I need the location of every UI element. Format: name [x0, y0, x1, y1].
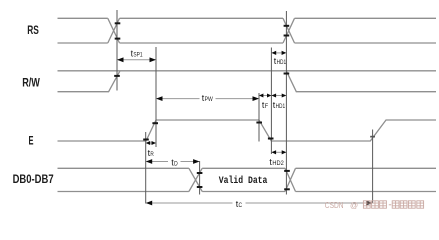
measure tSP1 arrow: [117, 57, 156, 62]
svg-text:HD2: HD2: [272, 160, 284, 167]
node reference line T1: [145, 132, 147, 204]
svg-text:E: E: [29, 133, 34, 147]
svg-text:R: R: [150, 151, 154, 158]
junction tick DB X2 upper: [284, 170, 290, 172]
junction tick E rise foot: [143, 139, 149, 141]
junction tick E rise2: [370, 136, 375, 138]
node reference line L1: [116, 10, 118, 91]
node reference line T2: [199, 161, 201, 195]
svg-text:C: C: [239, 202, 243, 209]
svg-text:CSDN: CSDN: [325, 201, 344, 210]
svg-text:Valid Data: Valid Data: [219, 175, 268, 186]
svg-text:R/W: R/W: [22, 76, 40, 90]
svg-text:HD1: HD1: [277, 59, 287, 66]
node reference line L3: [258, 93, 260, 142]
node reference line L6: [372, 130, 374, 204]
junction tick E fall foot: [268, 138, 274, 140]
junction tick RS X2 lower: [284, 35, 290, 37]
junction tick DB X2 lower: [284, 188, 290, 190]
svg-text:SP1: SP1: [133, 52, 142, 59]
measure tHD1 lower arrow: [271, 94, 286, 98]
svg-text:@: @: [350, 201, 358, 210]
junction tick DB X1 upper: [197, 172, 203, 174]
wire R/W high rail: [58, 70, 437, 72]
junction tick RS X2 upper: [284, 25, 290, 27]
svg-text:PW: PW: [205, 96, 214, 103]
junction tick DB X1 lower: [197, 186, 203, 188]
watermark CJK glyph blocks: [363, 201, 423, 208]
wire RS bus rails with crossovers: [58, 18, 437, 43]
svg-text:RS: RS: [27, 23, 39, 37]
node reference line L2: [155, 47, 157, 147]
wire R/W falling edge + low rail: [286, 71, 436, 92]
measure tPW arrow: [156, 96, 259, 101]
junction tick RS X1 lower: [115, 38, 121, 40]
junction tick R/W rise: [114, 75, 120, 77]
node reference line L5: [285, 11, 287, 195]
node reference line L4: [270, 48, 272, 155]
svg-text:DB0-DB7: DB0-DB7: [13, 172, 54, 186]
junction tick E rise top: [152, 122, 158, 124]
svg-text:D: D: [174, 160, 178, 167]
measure tD arrow: [146, 159, 200, 164]
svg-text:HD1: HD1: [276, 103, 286, 110]
measure tHD1 upper arrow: [272, 51, 287, 55]
junction tick E fall top: [256, 122, 262, 124]
wire E signal: [58, 120, 437, 141]
wire DB0-DB7 bus with crossovers: [58, 168, 437, 191]
wire R/W low + rising edge: [58, 71, 121, 92]
measure tF arrow: [259, 94, 271, 98]
junction tick R/W fall: [284, 73, 290, 75]
measure tR arrow: [146, 141, 156, 145]
junction tick RS X1 upper: [115, 22, 121, 24]
measure tHD2 arrow: [271, 150, 286, 154]
svg-text:F: F: [265, 103, 268, 110]
measure tC arrow: [146, 201, 373, 206]
